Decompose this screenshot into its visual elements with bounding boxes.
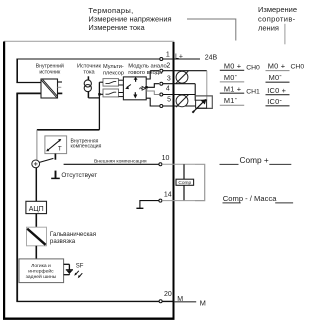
wire: terminal 10 outside gray [162, 163, 195, 165]
bracket for external comp connection [195, 164, 205, 200]
svg-text:тока: тока [83, 69, 95, 75]
svg-text:Внутренний: Внутренний [36, 62, 64, 69]
junction dot ADC output [145, 86, 148, 89]
wire: mux to ADC stub 4 [119, 96, 124, 98]
internal compensation stub [54, 154, 56, 160]
wire: mux input bus vertical [98, 82, 100, 130]
wire: ADC to isolation [35, 214, 37, 228]
label: internal compensation [71, 138, 102, 149]
wire: terminal 14 outside gray [162, 200, 195, 202]
galvanic isolation box [27, 227, 47, 246]
wire: mux to ADC stub 1 [119, 79, 124, 81]
LED SF diode [66, 270, 73, 274]
svg-text:компенсация: компенсация [71, 143, 102, 149]
power supply U1 (internal source) [41, 79, 58, 98]
current source G1 [84, 76, 91, 98]
svg-text:Логика и: Логика и [31, 263, 51, 269]
svg-text:CH1: CH1 [246, 89, 260, 96]
leader line from right annotation [284, 24, 286, 45]
ADC box amplifier triangle [140, 87, 146, 91]
label: analog input module [128, 63, 168, 76]
svg-text:Отсутствует: Отсутствует [61, 172, 97, 179]
label row Comp+ [220, 155, 292, 165]
ADC converter box [26, 201, 47, 213]
multiplexer switch box 1 [103, 79, 119, 87]
leader line from left annotation [187, 19, 236, 41]
svg-text:M1 +: M1 + [224, 84, 241, 93]
svg-text:4: 4 [166, 86, 170, 93]
wire: M bus vertical [16, 93, 18, 301]
resistance thermometer RT1 [192, 99, 206, 113]
svg-text:ления: ления [258, 24, 279, 33]
svg-text:источник: источник [39, 69, 61, 75]
PSU output stub 1 [58, 81, 63, 83]
wire: isolation to logic box [35, 246, 37, 259]
module frame right edge [173, 42, 175, 320]
svg-text:2: 2 [166, 63, 170, 70]
label: multiplexer [103, 64, 124, 76]
annotation: resistance measurement label [258, 5, 297, 33]
terminal 20 circle [159, 300, 162, 303]
annotation: thermocouple/voltage/current label [88, 6, 171, 32]
wire: terminal 2 corner drop [146, 71, 150, 79]
internal compensation box [45, 136, 67, 154]
external comp sensor box [176, 179, 194, 186]
svg-text:14: 14 [164, 192, 172, 199]
svg-text:M1-: M1- [224, 94, 238, 105]
svg-text:L+: L+ [175, 53, 183, 60]
svg-text:развязка: развязка [50, 238, 76, 245]
svg-text:плексор: плексор [103, 70, 124, 76]
svg-text:Comp - / Масса: Comp - / Масса [223, 194, 277, 203]
PSU output stub 3 [58, 92, 63, 94]
svg-text:1: 1 [166, 51, 170, 58]
module frame left edge [3, 42, 5, 320]
terminal 5 circle [160, 105, 163, 108]
legend right channel rows [266, 71, 290, 106]
wire: ADC output to terminal 4 [147, 88, 159, 95]
module frame top edge [4, 40, 174, 42]
svg-text:Comp: Comp [178, 180, 191, 186]
svg-text:3: 3 [167, 75, 171, 82]
wire: terminal 2 inner segment [150, 70, 159, 72]
wire: selector to ADC [35, 168, 37, 202]
svg-text:IC0 +: IC0 + [267, 86, 286, 95]
svg-text:SF: SF [76, 263, 84, 269]
wire: current source to mux bus [88, 97, 99, 99]
svg-text:T: T [58, 146, 62, 153]
none position stub [51, 171, 60, 179]
svg-text:24В: 24В [205, 55, 218, 62]
svg-text:АЦП: АЦП [29, 206, 44, 213]
selector node [32, 160, 40, 168]
wire: M stub outside module [174, 301, 196, 303]
label: external compensation [94, 159, 147, 165]
svg-text:M0-: M0- [269, 71, 283, 82]
wire: ADC output to terminal 3 [146, 84, 159, 88]
label row Comp- / ground [223, 194, 294, 203]
svg-text:Модуль анало-: Модуль анало- [128, 63, 168, 69]
wire: RTD right lead drop [206, 71, 208, 101]
terminal 2 circle [160, 69, 163, 72]
legend right row labels [267, 61, 286, 106]
wire: external compensation line [64, 163, 159, 165]
wire: mux box2 left stub [99, 93, 103, 95]
terminal 10 circle [159, 163, 162, 166]
svg-text:M0 +: M0 + [268, 61, 285, 70]
wire: RTD outer loop [195, 96, 212, 109]
wire: mux to ADC stub 2 [119, 84, 124, 86]
legend left row labels [224, 62, 241, 106]
svg-text:IC0-: IC0- [267, 95, 282, 106]
svg-text:Измерение: Измерение [258, 5, 297, 14]
svg-text:M0-: M0- [224, 71, 238, 82]
label: internal source [36, 62, 64, 75]
wire: terminal 4 outer segment [163, 94, 195, 96]
terminal 1 circle [160, 58, 163, 61]
legend left channel rows [220, 70, 244, 105]
wire: comp device lower drop [183, 185, 185, 200]
module frame bottom edge [3, 318, 175, 320]
selector arm [39, 158, 53, 162]
svg-text:M: M [177, 296, 183, 303]
ADC box up arrow [134, 77, 138, 82]
wire: selector gray drop [36, 130, 38, 160]
wire: PSU upper input [16, 82, 41, 84]
wire: RTD left lead drop [194, 84, 196, 101]
wire: terminal 3 outer segment [163, 83, 195, 85]
wire: M bottom rail to terminal 20 [16, 300, 174, 302]
wire: comp device upper drop [183, 164, 185, 179]
svg-text:сопротив-: сопротив- [258, 14, 296, 23]
svg-text:CH0: CH0 [246, 65, 260, 72]
svg-text:Мульти-: Мульти- [103, 64, 124, 70]
wire: mux box1 left stub [99, 81, 103, 83]
analog input module box U2 [123, 77, 146, 100]
wire: ADC bottom to terminal 5 [146, 98, 195, 106]
wire: L+ rail from terminal 1 [17, 58, 200, 60]
svg-text:M: M [200, 298, 206, 307]
label: galvanic isolation [50, 231, 96, 245]
svg-text:10: 10 [162, 155, 170, 162]
svg-text:20: 20 [164, 291, 172, 298]
multiplexer switch box 2 [103, 89, 119, 97]
ADC box down arrow [133, 92, 137, 98]
junction dot mux bus [98, 93, 100, 95]
LED light arrows [74, 271, 82, 278]
svg-text:Comp +: Comp + [240, 155, 269, 165]
svg-text:Внешняя компенсация: Внешняя компенсация [94, 159, 147, 165]
screw terminal upper [176, 71, 188, 83]
label: current source [77, 63, 101, 75]
screw terminal lower [176, 95, 188, 107]
wire: terminal 2 to ADC top right [163, 70, 207, 72]
wire: PSU lower input (M) [16, 92, 41, 94]
svg-text:Измерение тока: Измерение тока [88, 23, 145, 32]
wire: mux to ADC stub 3 [119, 92, 124, 94]
svg-text:CH0: CH0 [291, 63, 305, 70]
wire: terminal 14 inner segment [140, 201, 159, 208]
terminal 14 inner dead end bar [136, 207, 143, 209]
terminal 14 circle [159, 199, 162, 202]
svg-text:5: 5 [167, 97, 171, 104]
wire: LED loop [64, 264, 70, 274]
PSU output stub 2 [58, 86, 62, 88]
wire: L+ left drop [16, 59, 18, 83]
backplane logic box [19, 259, 64, 283]
svg-text:M0 +: M0 + [224, 62, 241, 71]
terminal 4 circle [160, 93, 163, 96]
ADC box left arrow [125, 85, 131, 90]
wire: mux bus to compensation selector [37, 129, 100, 131]
terminal 3 circle [160, 82, 163, 85]
